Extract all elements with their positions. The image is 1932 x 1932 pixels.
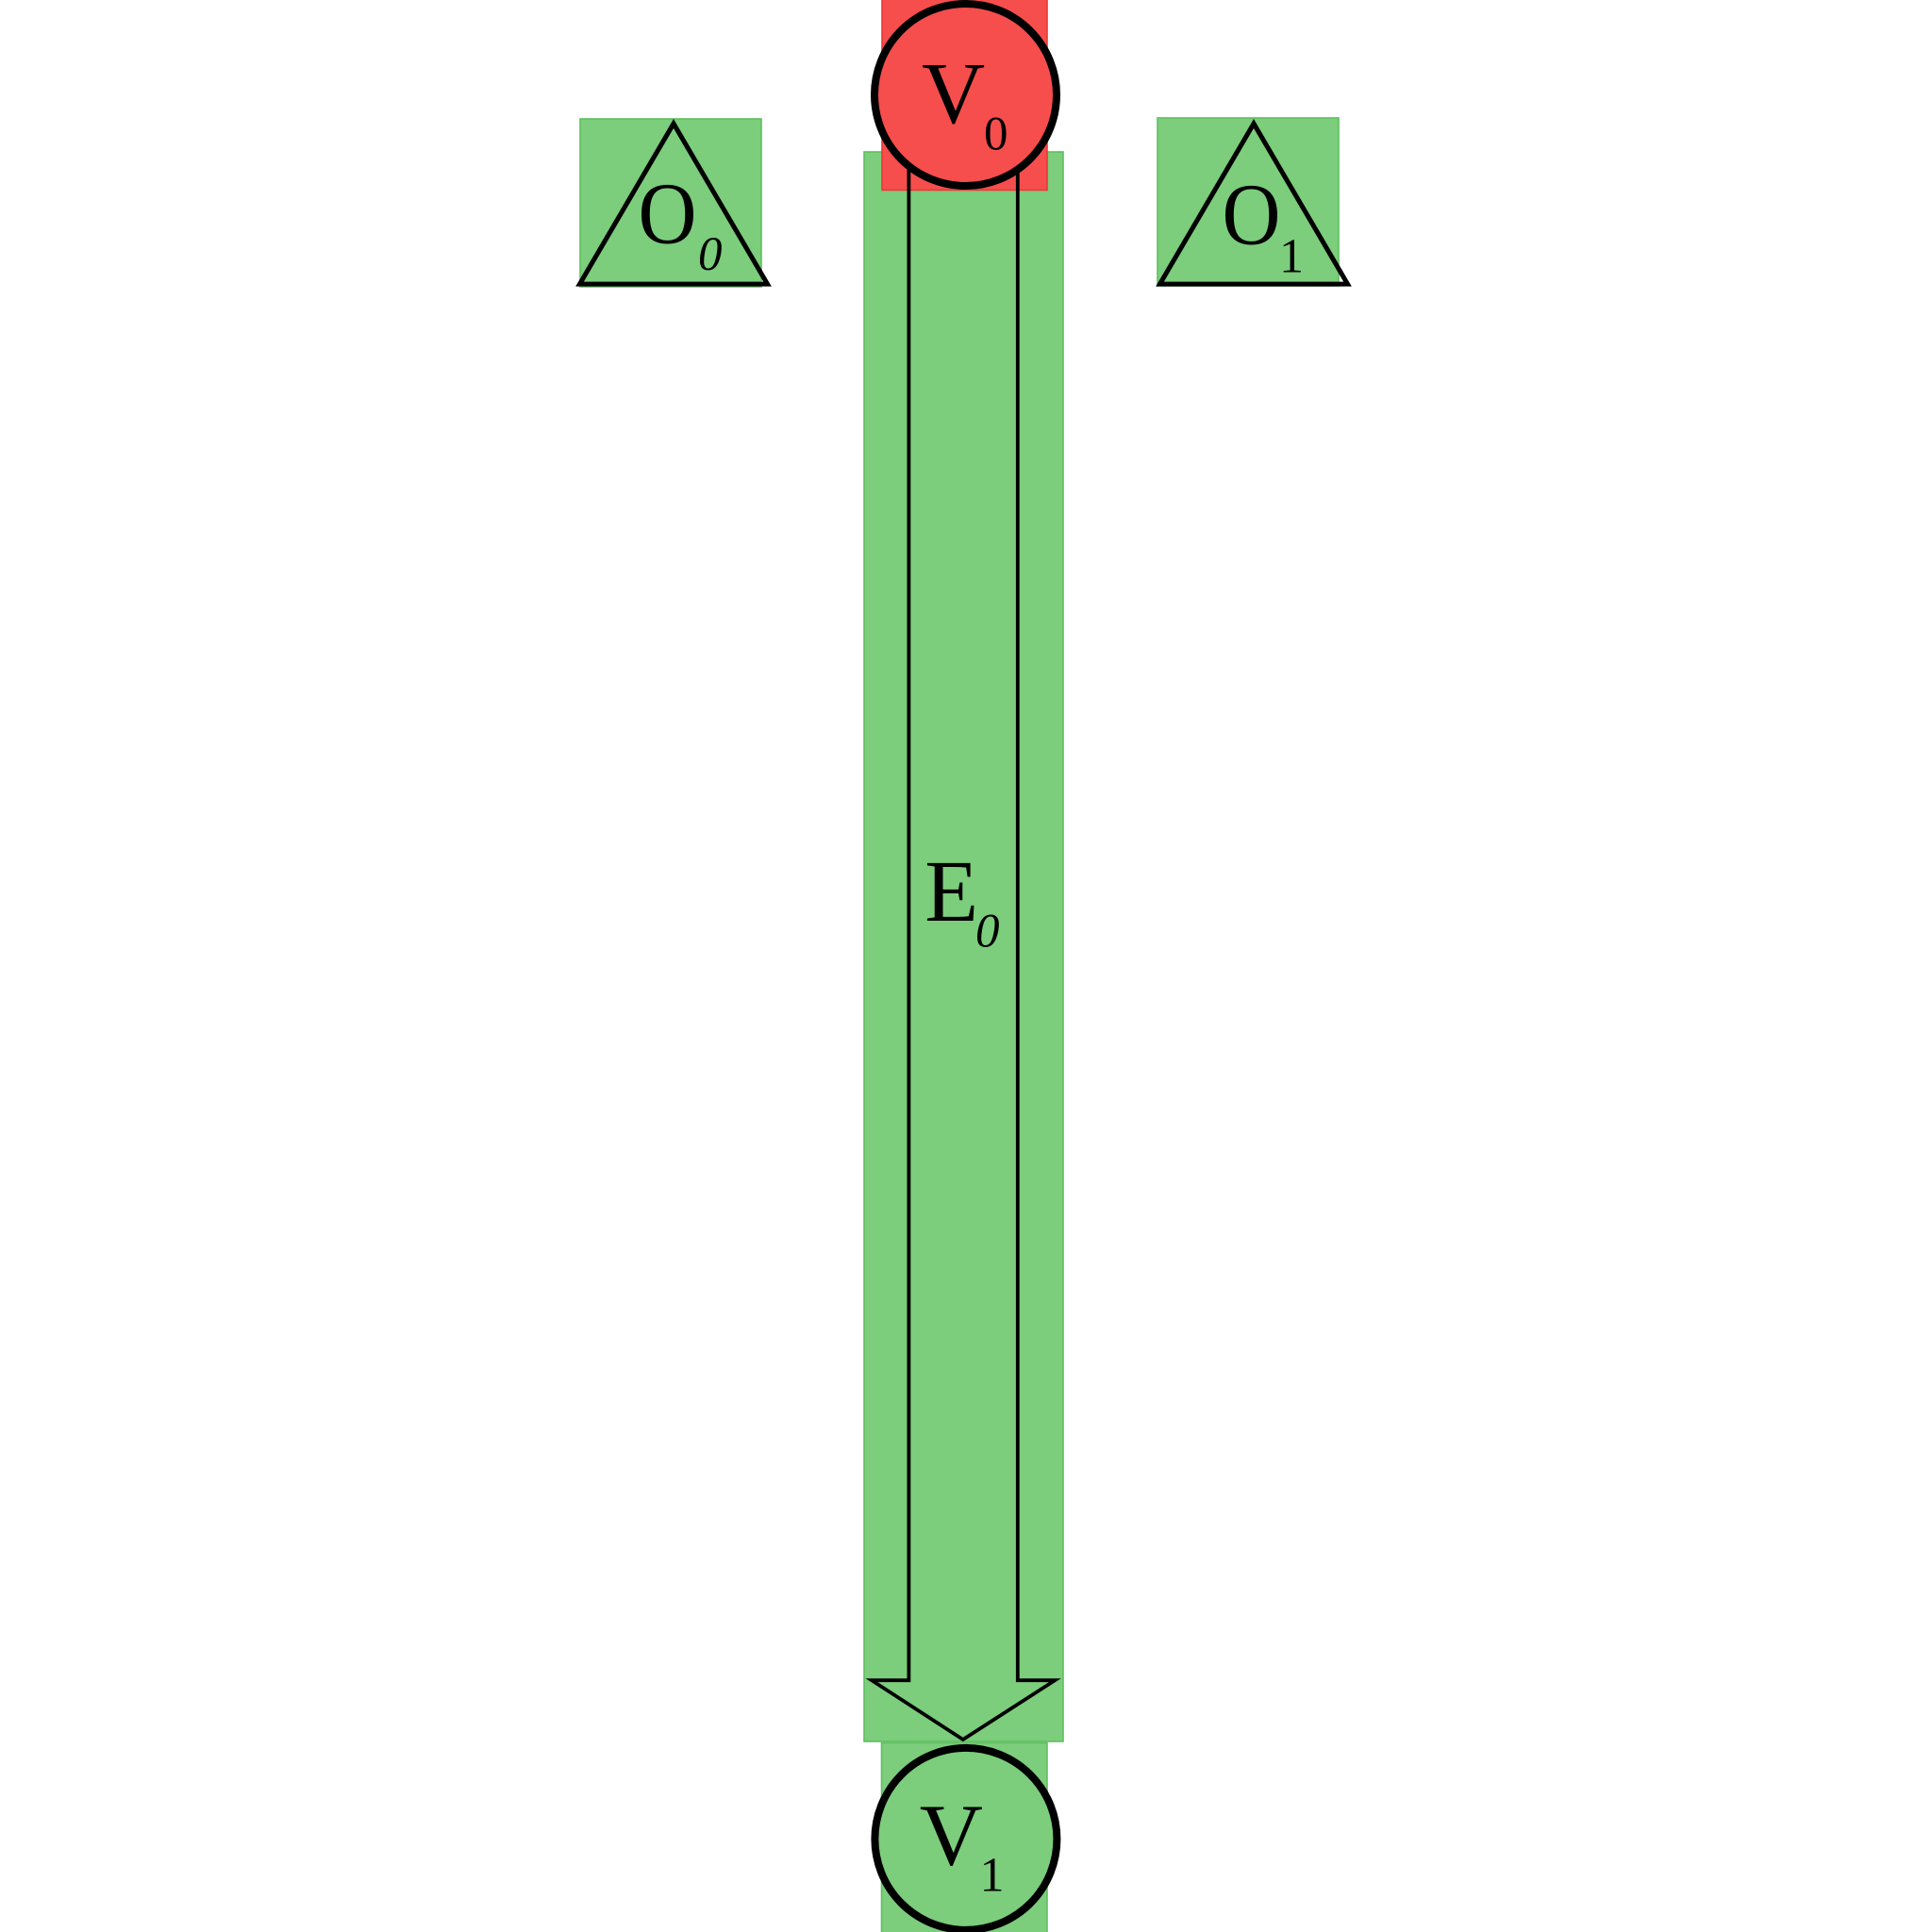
svg-text:1: 1 — [980, 1848, 1005, 1902]
vertex V1 highlight square — [882, 1743, 1048, 1932]
vertex V0 highlight square (selected, red) — [882, 0, 1047, 191]
svg-text:O: O — [1223, 167, 1281, 264]
svg-text:E: E — [924, 843, 978, 941]
observer O1 triangle — [1160, 124, 1348, 284]
observer O0 highlight square — [580, 119, 761, 287]
vertex V1 circle — [874, 1748, 1057, 1930]
svg-text:O: O — [639, 166, 697, 263]
svg-text:V: V — [922, 45, 985, 142]
svg-text:0: 0 — [698, 228, 723, 281]
svg-text:V: V — [920, 1788, 983, 1885]
observer O1 highlight square — [1158, 118, 1339, 286]
svg-text:0: 0 — [984, 108, 1008, 160]
observer O0 triangle — [580, 124, 768, 284]
vertex V0 circle — [874, 4, 1057, 186]
svg-text:1: 1 — [1279, 230, 1304, 284]
edge E0 arrow outline — [872, 160, 1055, 1740]
svg-text:0: 0 — [975, 906, 1000, 958]
edge bar E0 highlight — [864, 152, 1063, 1741]
